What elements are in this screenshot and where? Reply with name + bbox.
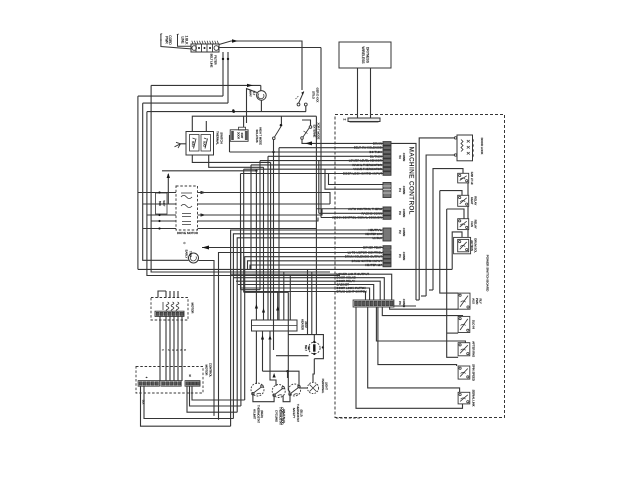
ground symbol at thermal switch [181, 143, 187, 145]
wire lamp left [299, 387, 307, 389]
machine control dashed enclosure [335, 115, 505, 418]
svg-text:PERSONAL: PERSONAL [321, 379, 325, 394]
svg-text:HIGH T MODE: HIGH T MODE [259, 127, 263, 145]
wires into P4 [329, 174, 384, 185]
svg-text:54: 54 [398, 155, 402, 159]
wire left bus 3 [143, 103, 189, 260]
wire strip drop to relay K5 bottom [390, 307, 459, 309]
svg-text:RLY: RLY [478, 299, 482, 304]
wires thermal switch top [192, 116, 316, 131]
wire strip drop to relay K8 top [378, 307, 457, 366]
wire belt switch to lamp [313, 359, 314, 383]
connector P2 [383, 228, 391, 241]
svg-text:P6: P6 [398, 301, 402, 305]
svg-text:CYCLING: CYCLING [275, 410, 279, 422]
wire arrow into drive motor row [167, 174, 169, 204]
svg-text:P2: P2 [398, 230, 402, 234]
wire strip drop to relay K6 top [382, 307, 462, 316]
svg-text:GER D XXX: GER D XXX [315, 88, 319, 103]
motor control strip A [138, 381, 159, 387]
connector bar on control board [348, 118, 380, 122]
svg-text:DRYNESS: DRYNESS [366, 47, 370, 64]
terminal block TB1 [191, 44, 219, 52]
wire sensor to control left [357, 68, 359, 118]
svg-text:PWR: PWR [164, 36, 168, 44]
svg-text:DRUM SOL: DRUM SOL [474, 238, 478, 253]
wire strip drop to relay K7 top [376, 307, 465, 343]
connector P1 [383, 246, 391, 250]
svg-text:EXTERNE: EXTERNE [313, 125, 317, 138]
svg-text:DOOR LOCK: DOOR LOCK [480, 138, 484, 155]
connector P4 [383, 183, 391, 198]
wire P5 row1 right to relay bundle [391, 143, 416, 300]
svg-text:P1: P1 [398, 254, 402, 258]
wire externe top [302, 120, 311, 126]
drum light lamp [307, 382, 318, 393]
wire drop P5 row7 [243, 169, 245, 292]
svg-text:THERMOSTAT: THERMOSTAT [256, 405, 260, 423]
wire motor circle bottom [260, 100, 262, 111]
wire belt switch loop top [288, 335, 323, 359]
svg-text:MOTOR: MOTOR [205, 365, 209, 376]
label POWER CORD bracket [161, 34, 191, 49]
belt switch rotor symbol [309, 342, 321, 354]
svg-text:SOLATIUS: SOLATIUS [255, 129, 259, 142]
svg-text:HI LIMIT: HI LIMIT [253, 409, 257, 420]
bead arrows on heater drops [255, 304, 258, 309]
junction dots on drive motor rows [158, 191, 160, 193]
svg-text:EARLY: EARLY [185, 250, 189, 259]
relay K4 outer box [454, 237, 471, 253]
door lock assembly box [457, 135, 473, 161]
switch solatius [275, 127, 281, 137]
wire N terminal block right [219, 47, 321, 49]
pump circle early trip [189, 253, 199, 263]
thermostat high limit [251, 383, 264, 396]
wire junction stub [287, 371, 289, 378]
wire solatius bottom [273, 140, 275, 153]
wire drop to safety thermostat [288, 292, 290, 392]
wires drive motor right [198, 193, 331, 205]
motor circle top [257, 91, 267, 101]
svg-text:TRIP: TRIP [188, 251, 192, 257]
wire drop P5 row5 [259, 161, 261, 290]
capsule thermostat component [230, 130, 248, 142]
long row y=269 [138, 268, 452, 270]
wires P7 labels to the left bundle [231, 273, 336, 275]
svg-text:CONN: CONN [402, 209, 406, 218]
dashed fragment bottom [336, 417, 360, 419]
wire stair vertical K3 down [447, 209, 458, 357]
wire early trip right and down [199, 261, 215, 416]
svg-text:SAFETY: SAFETY [292, 408, 296, 419]
wire heater feed 3 [270, 162, 272, 320]
wire bus1 to motor circle [260, 85, 262, 90]
svg-text:DOOR: DOOR [237, 132, 240, 139]
wire strip drop to relay K9 bottom [356, 307, 463, 408]
wire drop P5 row6 [250, 165, 252, 270]
svg-text:SWITCH: SWITCH [219, 132, 223, 143]
wires P7 rows to strip drops [336, 274, 392, 300]
wire drop P5 row4 [267, 156, 269, 320]
svg-text:RELAY: RELAY [474, 220, 478, 229]
wire solatius top [280, 116, 282, 124]
svg-text:RELAY: RELAY [474, 196, 478, 205]
wire bottom loop 3 [187, 386, 237, 412]
wire row 292 [244, 291, 289, 293]
wire motor circle left tap [247, 89, 257, 123]
svg-text:SLO HI: SLO HI [471, 320, 475, 329]
wires into P3 [316, 208, 383, 210]
wire externe down to row [302, 139, 305, 143]
wire stair feed door lock top [419, 138, 452, 300]
svg-text:CONN: CONN [402, 153, 406, 162]
wire belt switch left [276, 355, 309, 357]
svg-text:THERMOSTAT: THERMOSTAT [278, 407, 282, 425]
wire strip drop to relay K9 top [368, 307, 460, 392]
svg-text:C: C [183, 241, 185, 245]
wires into P1 [202, 247, 383, 249]
svg-text:BLK1: BLK1 [191, 141, 193, 147]
wire stair feed door lock bottom [426, 155, 452, 296]
relay K4 [458, 239, 469, 251]
wire drop A from terminal block [222, 52, 224, 96]
svg-text:CONTROL: CONTROL [208, 363, 212, 378]
wire bottom loop outermost [141, 386, 231, 426]
wire bottom loop 4 [190, 386, 241, 406]
svg-text:BLK: BLK [142, 400, 145, 405]
relay K8 [458, 366, 470, 379]
wires thermal switch bottom rows [192, 155, 270, 162]
label LINE 1 bracket [178, 34, 192, 46]
wire K6 bottom link [447, 332, 458, 334]
svg-text:BELT LINE: BELT LINE [210, 54, 214, 68]
wire bottom loop 5 [192, 386, 245, 400]
arrowhead P5 row1 [305, 141, 312, 145]
svg-text:(RED): (RED) [260, 410, 264, 418]
connector P7 strip [353, 300, 394, 307]
svg-text:(BLU): (BLU) [300, 409, 304, 416]
drive motor internals [181, 193, 192, 199]
wire heater feed 1 [255, 171, 257, 320]
door lock right pin bumps [472, 139, 475, 142]
relay K9 [458, 392, 470, 404]
relay K6 [458, 316, 470, 332]
wire thermostat top link [263, 371, 300, 386]
relay K1 [458, 173, 469, 183]
wire capsule left to row [229, 136, 232, 152]
wire stair feed K2 [440, 191, 462, 196]
wire drop B from terminal block [227, 52, 229, 103]
wire left bus 2 [137, 96, 139, 269]
relay K7 [458, 343, 470, 356]
wire hook strip to stair [394, 305, 416, 307]
wire left bus 4 to door switch [147, 112, 340, 276]
heater element bar [252, 320, 298, 331]
wire row 289 [241, 289, 261, 291]
label box left of drive motor [156, 193, 168, 214]
svg-text:SW: SW [307, 346, 310, 351]
svg-text:THERMAL: THERMAL [216, 131, 220, 145]
wires thermostat bottoms [253, 394, 274, 402]
extra verticals to lamp area [307, 269, 309, 334]
box wireless dryness sensor [339, 42, 391, 68]
relay K2 [458, 195, 469, 206]
svg-text:MACHINE CONTROL: MACHINE CONTROL [408, 147, 415, 215]
arrowhead bus1 [247, 84, 253, 87]
wire sensor to control right [370, 68, 372, 118]
svg-text:LINE: LINE [181, 36, 185, 43]
wire bundle center verticals [315, 116, 317, 334]
wire stair bottom hooks [416, 299, 419, 301]
switch externe [303, 128, 310, 138]
svg-text:THERMOSTAT: THERMOSTAT [296, 404, 300, 422]
svg-text:STILO: STILO [312, 91, 316, 99]
motor connector strip [155, 311, 184, 316]
wire left bus 1 [151, 85, 330, 272]
svg-text:MOTOR: MOTOR [191, 303, 195, 314]
extra heater top drops [277, 292, 279, 320]
svg-text:STAT: STAT [240, 133, 243, 139]
connector P5 pin column [383, 142, 391, 146]
svg-text:BLK2: BLK2 [203, 141, 205, 147]
door switch upper blade [299, 92, 304, 104]
svg-text:HEATER: HEATER [300, 319, 304, 330]
svg-text:(WHT BLU): (WHT BLU) [282, 409, 286, 423]
svg-text:DRIVE MOTOR: DRIVE MOTOR [177, 231, 199, 235]
wires motor strip up [165, 291, 167, 298]
svg-text:2: 2 [343, 119, 347, 121]
svg-text:XOR T MODE: XOR T MODE [316, 123, 320, 140]
motor control strip C [185, 381, 200, 387]
wires heater bottom [255, 331, 257, 384]
svg-text:CONN: CONN [402, 186, 406, 195]
svg-text:CONN: CONN [402, 252, 406, 261]
svg-text:CORD: CORD [168, 35, 172, 45]
wire door switch contact [305, 106, 307, 112]
svg-text:LIGHT: LIGHT [324, 382, 328, 390]
svg-text:WIRELESS: WIRELESS [361, 46, 365, 64]
svg-text:SPIN SPEED: SPIN SPEED [471, 364, 475, 381]
svg-text:BELT: BELT [304, 345, 307, 352]
wire drop P5 row2 to aux motor [278, 148, 280, 320]
connector P3 [383, 207, 391, 211]
wires drive motor left [138, 192, 176, 194]
wire bottom loop 2 [144, 386, 233, 418]
arrowhead L1 [232, 39, 238, 42]
thermal switch box [186, 132, 214, 156]
thermostat safety [289, 384, 301, 396]
wire stair feed K1 [433, 169, 463, 290]
relay chain links [467, 183, 469, 195]
wire capsule top [243, 116, 245, 127]
wire stair vertical K2-K5 [440, 191, 458, 294]
wire drop P5 row3 [273, 152, 275, 350]
wire stair feed K3 [447, 209, 464, 219]
svg-text:240V: 240V [304, 321, 308, 328]
svg-text:P4: P4 [398, 188, 402, 192]
svg-text:SERIAL LINK: SERIAL LINK [471, 390, 475, 407]
svg-text:1 BLK: 1 BLK [184, 36, 188, 46]
capsule top tab [239, 127, 246, 130]
motor dashed box [151, 298, 188, 321]
wire drop P5 row8 [240, 174, 242, 290]
wire L1 terminal block to door switch [219, 41, 302, 90]
svg-text:M: M [188, 374, 191, 376]
wire bundle into connector P5 [305, 142, 383, 144]
motor control dashed box [136, 367, 203, 394]
svg-text:FILTER: FILTER [213, 55, 217, 64]
relay K5 [458, 293, 470, 309]
motor internals coils [166, 302, 169, 312]
terminal block hatch ticks [192, 41, 193, 44]
wires motor strip down [159, 317, 161, 382]
wire heater feed 2 [263, 167, 265, 320]
svg-text:P3: P3 [398, 211, 402, 215]
thermostat cycling [272, 385, 285, 398]
motor control strip B [161, 381, 181, 387]
svg-text:POWER SWITCH BOARD: POWER SWITCH BOARD [486, 255, 490, 292]
wire stair feed K4 [452, 232, 462, 270]
drive motor dashed box [176, 186, 198, 230]
relay K3 [458, 219, 469, 230]
wires into P2 [231, 230, 383, 426]
svg-text:CONN: CONN [402, 228, 406, 237]
svg-text:FAB LT HI: FAB LT HI [470, 172, 474, 185]
svg-text:AFTER RNS: AFTER RNS [471, 341, 475, 357]
